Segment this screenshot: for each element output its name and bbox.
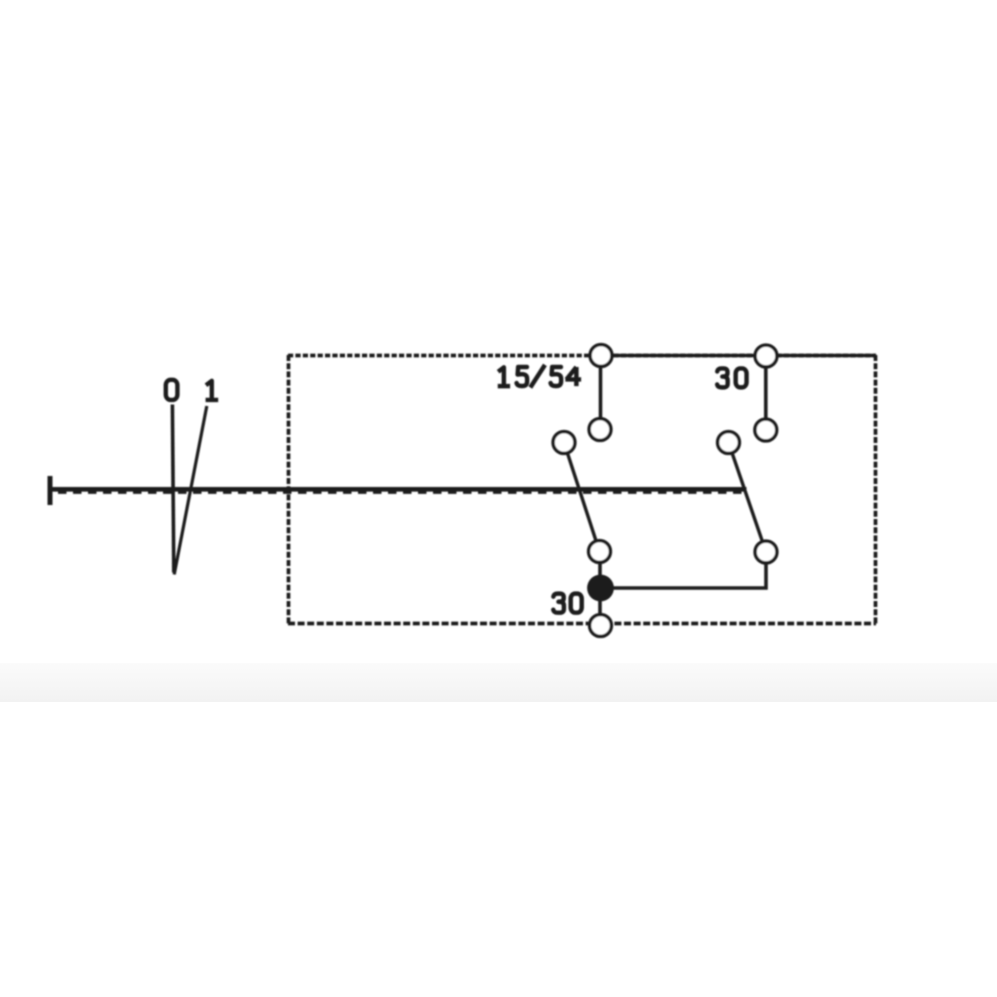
wire: switch 1 moving contact bbox=[564, 443, 600, 552]
background band bbox=[0, 663, 997, 702]
wire: terminal 30 down lead bbox=[764, 356, 768, 430]
contact circle: switch 2 fixed lower bbox=[755, 419, 777, 441]
wire: dashed echo under actuating line bbox=[58, 491, 744, 494]
terminal 15/54 (top contact circle) bbox=[590, 345, 612, 367]
terminal 30 bottom (contact circle on enclosure edge) bbox=[590, 615, 612, 637]
contact circle: switch 1 fixed lower bbox=[589, 419, 611, 441]
label 30 (bottom terminal) bbox=[553, 594, 581, 613]
wire: switch 1 lower lead to junction bbox=[598, 552, 602, 626]
terminal 30 top (contact circle) bbox=[755, 345, 777, 367]
lever position 1 line bbox=[174, 406, 207, 575]
wire: terminal 15/54 down lead bbox=[599, 355, 603, 430]
wire: top bus from terminal 15/54 to right edge bbox=[601, 354, 876, 358]
label 0 bbox=[166, 380, 178, 400]
label 1 bbox=[206, 381, 219, 400]
contact circle: switch 2 moving upper bbox=[718, 432, 740, 454]
label 30 (top terminal) bbox=[717, 368, 746, 387]
lever position 0 line bbox=[172, 405, 173, 573]
wire: switch 2 moving contact bbox=[729, 443, 767, 553]
contact circle: switch 1 moving upper bbox=[553, 432, 575, 454]
label 15/54 bbox=[498, 365, 581, 388]
switch enclosure (dashed box) bbox=[288, 355, 876, 624]
wire: mechanical actuating line bbox=[50, 487, 747, 492]
junction dot bbox=[587, 575, 614, 602]
contact circle: switch 1 moving lower bbox=[589, 541, 611, 563]
wire: junction to switch 2 lower lead bbox=[600, 552, 766, 588]
actuator end stop bbox=[48, 476, 53, 505]
contact circle: switch 2 moving lower bbox=[755, 541, 777, 563]
